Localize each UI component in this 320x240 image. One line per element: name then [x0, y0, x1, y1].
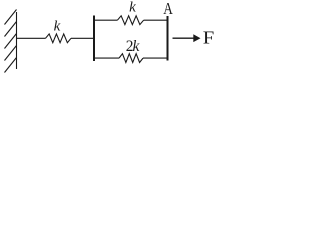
svg-text:2k: 2k: [126, 38, 141, 55]
svg-text:k: k: [54, 19, 61, 35]
node bar right (point A): [167, 16, 169, 61]
wire left bar to spring k2 (top branch): [95, 19, 117, 21]
wall hatch 1: [5, 10, 17, 25]
wire wall to spring k1: [17, 37, 46, 39]
wall hatch 5: [5, 58, 17, 73]
svg-text:F: F: [203, 28, 215, 48]
svg-text:k: k: [129, 0, 136, 16]
svg-text:A: A: [163, 0, 173, 18]
spring k2 (top): [117, 16, 143, 25]
spring 2k (bottom): [119, 54, 143, 63]
node bar left: [93, 16, 95, 62]
force arrow F: [173, 34, 201, 42]
wall hatch 2: [5, 22, 17, 37]
wire spring k1 to left bar: [71, 37, 93, 39]
wall hatch 4: [5, 46, 17, 61]
wall: [16, 12, 18, 69]
spring k1 (middle): [46, 34, 72, 43]
wire left bar to spring 2k (bottom branch): [95, 57, 119, 59]
wire spring 2k to right bar: [143, 57, 167, 59]
wire spring k2 to right bar: [144, 19, 167, 21]
wall hatch 3: [5, 34, 17, 49]
